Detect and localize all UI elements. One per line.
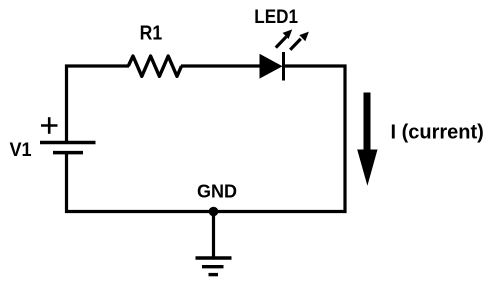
wire: LED to top-right corner, right side, bottom, left lower segment — [67, 66, 346, 212]
current direction arrow — [357, 93, 377, 186]
svg-text:R1: R1 — [140, 22, 162, 44]
ground symbol bars — [196, 258, 232, 275]
LED cathode bar — [282, 52, 285, 81]
LED light arrow 2 — [290, 32, 309, 50]
svg-text:GND: GND — [197, 182, 237, 202]
svg-text:I (current): I (current) — [391, 122, 484, 144]
svg-text:LED1: LED1 — [254, 6, 298, 27]
battery V1 long plate (+) — [40, 141, 96, 145]
wire: left upper segment + top-left segment — [67, 66, 130, 141]
LED light arrow 1 — [276, 29, 292, 47]
node GND junction dot — [209, 207, 219, 217]
svg-text:V1: V1 — [10, 139, 32, 161]
battery plus sign — [41, 117, 58, 134]
ground stub wire — [212, 212, 215, 258]
battery V1 short plate (-) — [53, 151, 83, 155]
LED LED1 triangle (anode) — [260, 54, 283, 79]
resistor R1 — [128, 56, 181, 76]
wire: resistor to LED — [181, 64, 262, 67]
